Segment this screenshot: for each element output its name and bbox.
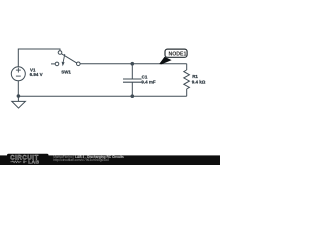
switch left throw stub wire xyxy=(51,63,55,65)
node junction dot C1 top xyxy=(131,62,135,66)
logo capacitor symbol xyxy=(22,161,24,164)
R1 zigzag body xyxy=(184,70,190,89)
V1 bottom lead xyxy=(17,81,19,97)
wire top rail switch to R1 corner xyxy=(80,63,187,65)
C1 bottom plate xyxy=(123,81,142,83)
ground symbol xyxy=(12,96,26,108)
voltage source V1 xyxy=(11,67,42,96)
V1 plus sign xyxy=(16,69,21,71)
capacitor C1 xyxy=(123,64,156,96)
V1 minus sign xyxy=(16,75,21,77)
svg-text:LAB: LAB xyxy=(28,160,39,166)
footer bar xyxy=(0,155,220,165)
C1 top plate xyxy=(123,78,142,80)
C1 top lead xyxy=(131,64,133,79)
switch blade xyxy=(62,54,77,63)
svg-text:9.4 kΩ: 9.4 kΩ xyxy=(192,80,206,85)
footer logo box xyxy=(7,154,49,165)
svg-text:http://circuitlab.com/c/7963uh: http://circuitlab.com/c/7963uh94kg65w2 xyxy=(53,158,109,162)
switch actuation arrow xyxy=(63,54,65,62)
svg-text:9.4 mF: 9.4 mF xyxy=(141,80,156,85)
svg-text:SW1: SW1 xyxy=(61,70,71,75)
switch SW1 xyxy=(51,51,80,75)
svg-text:NODE1: NODE1 xyxy=(168,52,186,58)
resistor R1 xyxy=(184,64,206,96)
node junction dot ground xyxy=(17,94,21,98)
node NODE1 flag pointer xyxy=(159,57,171,64)
wire V1 top to switch throw xyxy=(18,49,60,67)
switch common terminal xyxy=(77,62,81,66)
svg-text:6.94 V: 6.94 V xyxy=(30,72,43,77)
ground stem xyxy=(17,96,19,101)
logo resistor symbol xyxy=(10,161,21,163)
node NODE1 label box xyxy=(165,49,187,57)
svg-text:R1: R1 xyxy=(192,74,198,79)
wire bottom rail xyxy=(18,95,186,97)
R1 bottom lead xyxy=(186,89,188,96)
C1 bottom lead xyxy=(131,82,133,96)
node junction dot C1 bottom xyxy=(131,94,135,98)
ground triangle xyxy=(12,101,26,108)
V1 circle xyxy=(11,67,25,81)
switch throw terminal top xyxy=(58,51,62,55)
switch throw terminal left xyxy=(55,62,59,66)
R1 top lead from rail corner xyxy=(186,64,188,70)
